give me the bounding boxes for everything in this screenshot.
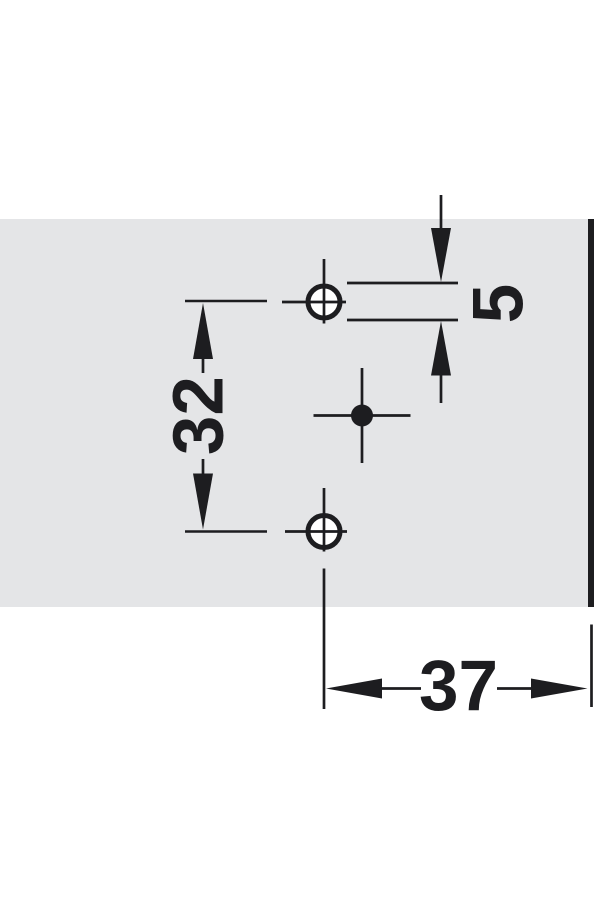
hole H2 crosshair vertical bbox=[323, 488, 326, 552]
dim 5 upper line bbox=[347, 282, 458, 285]
svg-text:37: 37 bbox=[419, 647, 498, 726]
dim 32 arrow up tail bbox=[202, 358, 205, 373]
dim 5 arrow up bbox=[431, 321, 451, 376]
hole H1 crosshair horizontal bbox=[282, 301, 346, 304]
dim 37 left extension line (below hole H2) bbox=[323, 569, 326, 710]
dim 37 arrow right bbox=[531, 679, 588, 699]
hole H1 circle bbox=[308, 286, 340, 318]
dim 5 arrow down tail bbox=[440, 195, 443, 230]
hole H2 circle bbox=[308, 516, 340, 548]
centre mark cross horizontal bbox=[314, 414, 411, 417]
dim 32 bottom extension tick bbox=[185, 530, 267, 533]
dim 5 arrow down bbox=[431, 228, 451, 282]
centre mark dot bbox=[351, 405, 373, 427]
dim 37 arrow right tail bbox=[497, 687, 532, 690]
dim 32 arrow down tail bbox=[202, 459, 205, 474]
dim 5 lower line bbox=[347, 319, 458, 322]
hole H1 crosshair vertical bbox=[323, 259, 326, 324]
dim 32 arrow up bbox=[193, 303, 213, 359]
hole H2 crosshair horizontal bbox=[285, 530, 347, 533]
dim 5 arrow up tail bbox=[440, 374, 443, 403]
dim 32 arrow down bbox=[193, 474, 213, 530]
svg-text:5: 5 bbox=[460, 284, 539, 324]
panel (grey board) bbox=[0, 219, 588, 607]
svg-text:32: 32 bbox=[160, 376, 239, 455]
panel front edge (thick black right border) bbox=[588, 219, 594, 607]
dim 32 top extension tick bbox=[185, 300, 267, 303]
centre mark cross vertical bbox=[361, 368, 364, 463]
dim 37 arrow left bbox=[326, 679, 382, 699]
dim 37 arrow left tail bbox=[381, 687, 421, 690]
dim 37 right extension line bbox=[590, 625, 593, 708]
